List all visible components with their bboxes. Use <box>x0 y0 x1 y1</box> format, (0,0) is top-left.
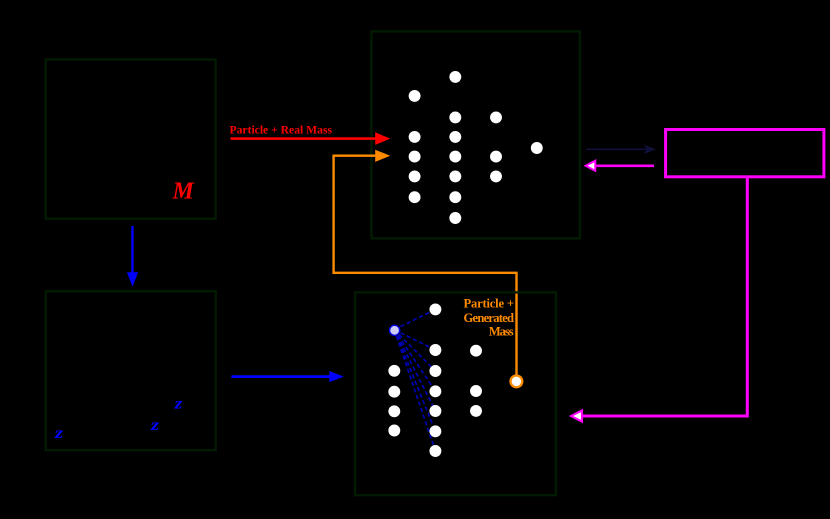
svg-text:M: M <box>172 178 196 204</box>
red arrow: particle + real mass <box>231 132 391 145</box>
generator input node z (highlighted) <box>390 325 400 335</box>
orange wire: generated sample path <box>334 156 517 376</box>
svg-text:Generated: Generated <box>464 311 515 325</box>
magenta arrow: loss to discriminator <box>586 161 654 171</box>
navy arrow: discriminator output to loss box <box>586 145 655 154</box>
orange arrowhead <box>375 150 390 162</box>
discriminator layer 1 nodes <box>409 90 421 203</box>
generator layer 3 nodes <box>470 345 482 417</box>
blue arrow: latent box to generator (horizontal) <box>231 371 343 382</box>
magenta box: loss / backprop <box>666 130 824 177</box>
orange label: Particle + Generated Mass <box>464 297 515 339</box>
discriminator layer 3 nodes <box>490 111 502 182</box>
generator output node (generated mass) <box>511 376 523 388</box>
magenta wire: loss to generator <box>583 178 747 417</box>
discriminator layer 2 nodes <box>449 71 461 224</box>
svg-text:Particle +: Particle + <box>464 297 515 311</box>
blue arrow: M to latent box (vertical) <box>127 226 138 287</box>
generator fan wires from z node <box>394 309 435 451</box>
svg-text:z: z <box>174 396 184 413</box>
box: generator network <box>355 292 556 495</box>
box: discriminator network <box>372 31 580 238</box>
svg-text:Mass: Mass <box>489 325 514 339</box>
svg-text:z: z <box>54 425 64 442</box>
svg-text:Particle + Real Mass: Particle + Real Mass <box>230 125 333 137</box>
generator layer 1 nodes <box>388 365 400 437</box>
discriminator output node <box>531 142 543 154</box>
generator layer 2 nodes <box>429 303 441 457</box>
magenta arrowhead to generator <box>571 410 582 421</box>
box: latent input z <box>46 291 216 450</box>
box: real data sample (M) <box>46 60 216 219</box>
svg-text:z: z <box>150 417 160 434</box>
